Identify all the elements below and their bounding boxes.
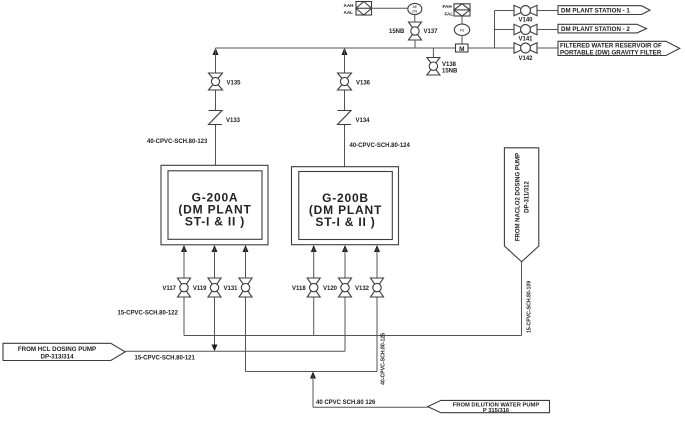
- wire collection header A: [184, 335, 522, 337]
- valve V136: [338, 73, 371, 90]
- instrument analyzer bubble: [408, 3, 422, 14]
- svg-text:V137: V137: [424, 29, 439, 35]
- valve V135: [209, 73, 242, 90]
- valve V137: [389, 22, 438, 40]
- wire alarm to flow switch: [461, 16, 463, 24]
- svg-text:M: M: [459, 46, 464, 53]
- wire riser V118 with arrow into tank B: [311, 245, 317, 336]
- svg-text:V117: V117: [162, 286, 176, 292]
- svg-text:PORTABLE (DW) GRAVITY FILTER: PORTABLE (DW) GRAVITY FILTER: [560, 49, 662, 56]
- svg-text:15-CPVC-SCH.80-121: 15-CPVC-SCH.80-121: [135, 356, 196, 362]
- svg-text:V136: V136: [356, 81, 371, 87]
- flag from dilution water pump: [428, 400, 550, 414]
- svg-text:DM PLANT STATION - 2: DM PLANT STATION - 2: [561, 26, 630, 33]
- flag from HCL dosing pump: [3, 343, 125, 360]
- svg-text:FROM NACLO2 DOSING PUMP: FROM NACLO2 DOSING PUMP: [516, 153, 522, 241]
- valve V131: [223, 278, 252, 297]
- flexible joint V133: [209, 111, 241, 125]
- wire collection header B: [246, 371, 378, 373]
- svg-text:15-CPVC-SCH.80-109: 15-CPVC-SCH.80-109: [527, 281, 533, 333]
- valve V117: [162, 278, 190, 297]
- svg-text:V138: V138: [442, 62, 457, 68]
- valve V142: [514, 43, 537, 62]
- wire analyzer to valve V137: [414, 15, 416, 22]
- flow meter M on main line: [456, 44, 469, 53]
- svg-text:ST-I & II ): ST-I & II ): [315, 215, 375, 229]
- svg-text:DP-313/314: DP-313/314: [40, 354, 74, 361]
- valve V132: [355, 278, 384, 297]
- wire drain stub: [432, 48, 434, 58]
- svg-text:P 315/316: P 315/316: [483, 408, 510, 414]
- svg-text:DP-311/312: DP-311/312: [525, 180, 531, 212]
- wire NaClO2 dosing line drop: [521, 262, 523, 336]
- svg-text:15-CPVC-SCH.80-122: 15-CPVC-SCH.80-122: [118, 311, 179, 317]
- svg-text:V118: V118: [292, 286, 306, 292]
- svg-text:V120: V120: [323, 286, 338, 292]
- svg-text:15NB: 15NB: [442, 69, 458, 75]
- wire valve V137 to main line: [414, 40, 416, 48]
- valve V118: [292, 278, 320, 297]
- svg-text:FAL: FAL: [445, 11, 454, 16]
- svg-text:40-CPVC-SCH.80-124: 40-CPVC-SCH.80-124: [350, 143, 411, 149]
- svg-text:AAL: AAL: [344, 10, 354, 15]
- wire riser V131 with arrow into tank A: [243, 245, 249, 372]
- wire riser to tank G-200A with flow arrow: [213, 48, 219, 166]
- wire acid dosing line: [125, 350, 345, 352]
- svg-text:40-CPVC-SCH.80-125: 40-CPVC-SCH.80-125: [381, 333, 387, 385]
- tank G-200B: [292, 167, 399, 245]
- wire branch 1: [495, 10, 559, 12]
- svg-text:V132: V132: [355, 286, 370, 292]
- svg-text:V131: V131: [223, 286, 238, 292]
- svg-text:40-CPVC-SCH.80-123: 40-CPVC-SCH.80-123: [147, 139, 208, 145]
- valve V120: [323, 278, 352, 297]
- valve V138: [427, 58, 458, 76]
- wire main header line: [216, 47, 559, 49]
- svg-text:V119: V119: [193, 286, 207, 292]
- valve V140: [514, 5, 537, 23]
- alarm annunciator FAH/FAL: [443, 4, 471, 16]
- wire dilution water feed with arrow: [310, 372, 428, 408]
- instrument flow switch bubble: [454, 24, 469, 35]
- svg-text:V134: V134: [356, 118, 371, 124]
- flag to DM plant station 1: [558, 6, 650, 15]
- valve V141: [514, 24, 537, 42]
- svg-text:FAH: FAH: [443, 4, 453, 9]
- flexible joint V134: [338, 111, 371, 125]
- svg-text:201: 201: [412, 9, 418, 13]
- wire branch 2: [495, 29, 559, 31]
- wire riser V117 with arrow into tank A: [181, 245, 187, 336]
- wire distribution header junction: [494, 11, 496, 49]
- wire riser V119 with arrow into tank A and arrow into acid line: [212, 245, 218, 351]
- tank G-200A: [161, 165, 268, 245]
- wire alarm to analyzer: [372, 7, 408, 9]
- svg-text:V142: V142: [518, 56, 533, 62]
- svg-text:V135: V135: [227, 81, 242, 87]
- svg-text:40 CPVC SCH.80 126: 40 CPVC SCH.80 126: [316, 400, 376, 406]
- svg-text:15NB: 15NB: [389, 29, 405, 35]
- svg-text:AAH: AAH: [344, 3, 355, 8]
- alarm annunciator AAH/AAL: [344, 2, 372, 16]
- svg-text:ST-I & II ): ST-I & II ): [185, 215, 245, 229]
- wire riser V120 with arrow into tank B: [342, 245, 348, 351]
- svg-text:V140: V140: [518, 18, 533, 24]
- svg-text:DM PLANT STATION - 1: DM PLANT STATION - 1: [561, 8, 630, 15]
- svg-text:FROM HCL DOSING PUMP: FROM HCL DOSING PUMP: [18, 346, 96, 353]
- svg-text:V133: V133: [226, 118, 241, 124]
- wire flow switch to meter: [461, 36, 463, 45]
- wire riser V132 with arrow into tank B: [374, 245, 380, 372]
- flag to filtered water reservoir: [558, 41, 680, 56]
- valve V119: [193, 278, 221, 297]
- flag to DM plant station 2: [558, 24, 647, 33]
- flag from NaClO2 dosing pump: [504, 148, 538, 262]
- wire riser to tank G-200B with flow arrow: [342, 48, 348, 167]
- svg-text:V141: V141: [518, 37, 533, 43]
- svg-text:FS: FS: [460, 29, 465, 33]
